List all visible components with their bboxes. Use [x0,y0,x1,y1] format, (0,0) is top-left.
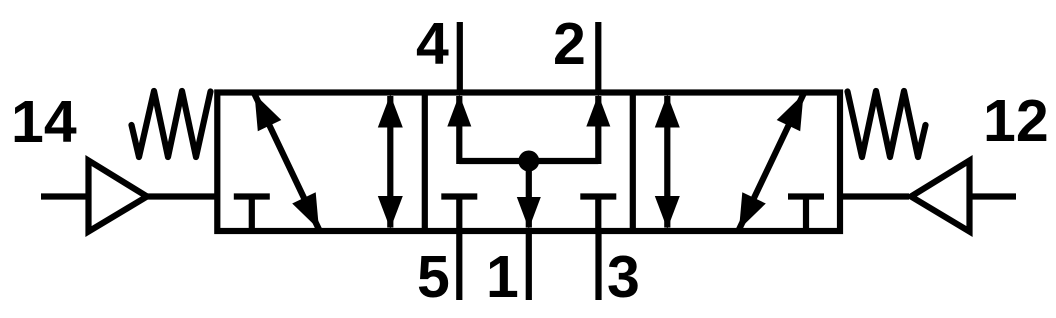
svg-text:3: 3 [607,244,640,310]
svg-text:1: 1 [486,244,519,310]
svg-text:5: 5 [417,244,450,310]
svg-text:4: 4 [416,11,449,77]
svg-text:2: 2 [553,11,586,77]
svg-text:14: 14 [11,89,77,155]
svg-text:12: 12 [983,88,1049,154]
